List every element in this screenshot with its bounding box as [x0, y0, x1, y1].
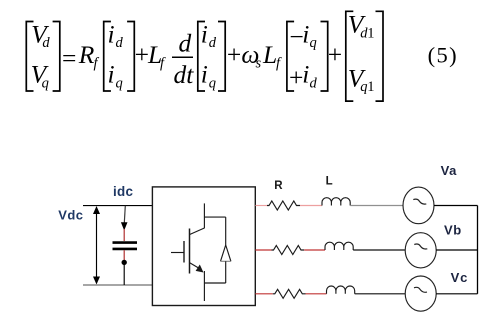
svg-text:q: q	[209, 75, 216, 91]
svg-text:Vc: Vc	[451, 270, 469, 285]
svg-text:i: i	[108, 60, 115, 89]
svg-text:i: i	[201, 60, 208, 89]
svg-text:i: i	[302, 20, 309, 49]
svg-text:i: i	[108, 20, 115, 49]
svg-text:d: d	[179, 29, 192, 58]
svg-text:L: L	[262, 40, 277, 69]
svg-text:s: s	[256, 56, 262, 72]
svg-text:d: d	[209, 35, 217, 51]
svg-text:Vb: Vb	[444, 222, 462, 237]
svg-text:idc: idc	[113, 184, 133, 199]
svg-text:f: f	[160, 56, 166, 72]
svg-text:=: =	[60, 43, 77, 72]
svg-text:R: R	[274, 180, 283, 192]
svg-text:i: i	[302, 60, 309, 89]
svg-text:L: L	[326, 176, 333, 188]
svg-text:1: 1	[367, 79, 374, 95]
svg-text:+: +	[225, 40, 242, 69]
svg-text:q: q	[42, 75, 49, 91]
svg-text:q: q	[310, 35, 317, 51]
svg-text:f: f	[276, 56, 282, 72]
svg-text:Va: Va	[441, 163, 458, 178]
svg-text:f: f	[94, 56, 100, 72]
svg-text:d: d	[310, 75, 318, 91]
svg-text:dt: dt	[174, 60, 195, 89]
svg-text:(5): (5)	[428, 43, 458, 68]
svg-text:R: R	[78, 40, 95, 69]
svg-text:1: 1	[367, 25, 374, 41]
svg-text:+: +	[326, 40, 343, 69]
svg-text:d: d	[42, 35, 50, 51]
svg-text:d: d	[116, 35, 124, 51]
svg-text:Vdc: Vdc	[58, 207, 83, 222]
svg-text:q: q	[116, 75, 123, 91]
svg-text:i: i	[201, 20, 208, 49]
